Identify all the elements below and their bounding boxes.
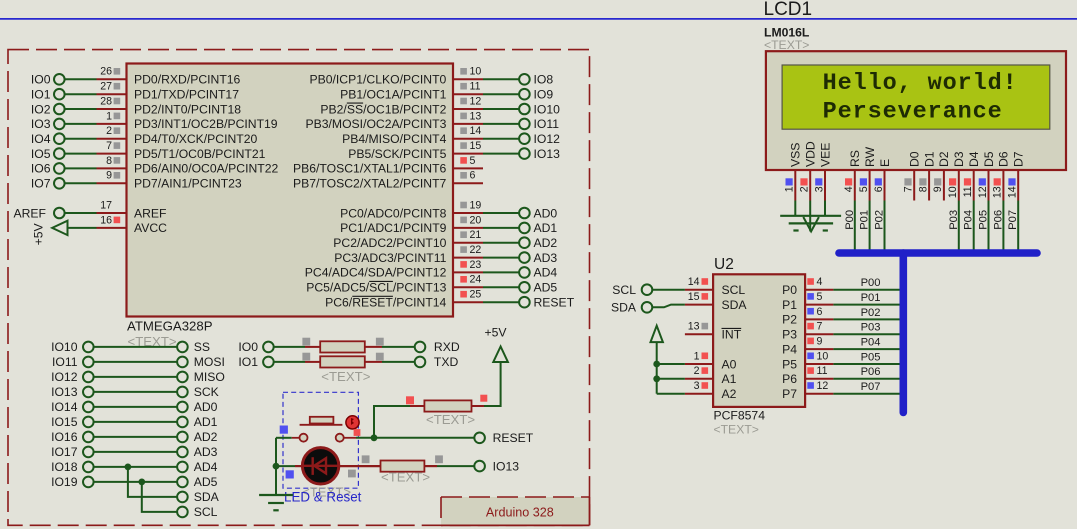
- svg-text:IO16: IO16: [51, 430, 78, 444]
- svg-text:<TEXT>: <TEXT>: [714, 423, 759, 437]
- svg-text:VSS: VSS: [789, 143, 803, 167]
- svg-text:13: 13: [470, 110, 482, 122]
- svg-text:SCL: SCL: [722, 283, 746, 297]
- svg-text:6: 6: [873, 186, 885, 192]
- svg-text:D5: D5: [982, 151, 996, 167]
- wire + terminal IO10: [483, 108, 519, 110]
- resistor series IO0-RXD: [320, 341, 365, 352]
- bus vertical: [899, 253, 907, 413]
- svg-text:VEE: VEE: [818, 143, 832, 167]
- svg-text:IO11: IO11: [534, 117, 560, 131]
- svg-text:D7: D7: [1012, 151, 1026, 167]
- wire P03 to bus: [958, 201, 960, 254]
- svg-text:7: 7: [903, 186, 915, 192]
- wire P04 to bus: [973, 201, 975, 254]
- svg-text:Arduino 328: Arduino 328: [486, 506, 554, 520]
- svg-text:PC4/ADC4/SDA/PCINT12: PC4/ADC4/SDA/PCINT12: [305, 266, 447, 280]
- svg-text:PB1/OC1A/PCINT1: PB1/OC1A/PCINT1: [340, 88, 447, 102]
- svg-text:P00: P00: [861, 277, 881, 289]
- svg-text:P01: P01: [859, 210, 871, 230]
- svg-text:IO12: IO12: [534, 132, 561, 146]
- push button (reset): [276, 437, 292, 439]
- svg-text:AD3: AD3: [194, 445, 218, 459]
- svg-text:6: 6: [470, 170, 476, 182]
- node junction at LED anode branch: [273, 463, 280, 470]
- svg-text:PD5/T1/OC0B/PCINT21: PD5/T1/OC0B/PCINT21: [134, 147, 266, 161]
- terminal SDA: [177, 492, 188, 503]
- svg-text:PC1/ADC1/PCINT9: PC1/ADC1/PCINT9: [340, 221, 447, 235]
- svg-text:7: 7: [817, 321, 823, 333]
- svg-text:14: 14: [1007, 186, 1019, 198]
- svg-text:AREF: AREF: [134, 206, 167, 220]
- svg-text:12: 12: [470, 95, 482, 107]
- svg-text:PC2/ADC2/PCINT10: PC2/ADC2/PCINT10: [333, 236, 446, 250]
- svg-text:P07: P07: [861, 381, 881, 393]
- svg-text:+5V: +5V: [485, 326, 508, 340]
- node junction A1: [653, 375, 660, 382]
- wire resistor -> reset node: [410, 405, 424, 407]
- svg-text:AD5: AD5: [194, 475, 218, 489]
- svg-text:<TEXT>: <TEXT>: [321, 369, 370, 384]
- svg-text:IO2: IO2: [31, 102, 51, 116]
- svg-text:24: 24: [470, 274, 482, 286]
- svg-text:27: 27: [100, 81, 112, 93]
- svg-text:A2: A2: [722, 387, 737, 401]
- svg-text:14: 14: [688, 276, 700, 288]
- svg-text:D2: D2: [937, 151, 951, 167]
- svg-text:P4: P4: [782, 342, 797, 356]
- svg-text:D3: D3: [952, 151, 966, 167]
- node junction on IO19 wire: [138, 479, 145, 486]
- bus horizontal: [839, 249, 1037, 257]
- svg-text:LCD1: LCD1: [764, 0, 813, 20]
- Arduino 328 title box: [441, 497, 590, 525]
- svg-text:INT: INT: [722, 328, 742, 342]
- svg-text:IO10: IO10: [534, 102, 561, 116]
- node junction on IO18 wire: [125, 464, 132, 471]
- svg-text:D4: D4: [967, 151, 981, 167]
- wire resistor -> IO13 terminal: [424, 465, 437, 467]
- node junction A0: [653, 361, 660, 368]
- wire resistor -> RXD: [382, 346, 415, 348]
- svg-text:<TEXT>: <TEXT>: [426, 412, 475, 427]
- svg-text:8: 8: [106, 155, 112, 167]
- svg-text:PC3/ADC3/PCINT11: PC3/ADC3/PCINT11: [334, 251, 446, 265]
- svg-text:SDA: SDA: [722, 298, 748, 312]
- svg-text:AD2: AD2: [534, 236, 558, 250]
- svg-text:P03: P03: [948, 210, 960, 230]
- svg-text:PC0/ADC0/PCINT8: PC0/ADC0/PCINT8: [340, 206, 447, 220]
- svg-text:5: 5: [817, 291, 823, 303]
- svg-text:IO13: IO13: [493, 459, 520, 473]
- subcircuit frame Arduino 328 (dashed): [8, 50, 590, 526]
- svg-text:PB3/MOSI/OC2A/PCINT3: PB3/MOSI/OC2A/PCINT3: [306, 117, 447, 131]
- wire IO19 -> SCL terminal: [142, 482, 177, 512]
- wire: top blue bus/divider line: [0, 18, 1077, 20]
- svg-text:8: 8: [917, 186, 929, 192]
- svg-text:TXD: TXD: [434, 355, 459, 369]
- svg-text:PD3/INT1/OC2B/PCINT19: PD3/INT1/OC2B/PCINT19: [134, 117, 278, 131]
- svg-text:P6: P6: [782, 372, 797, 386]
- svg-text:28: 28: [100, 95, 112, 107]
- svg-text:PCF8574: PCF8574: [714, 409, 766, 423]
- svg-text:LED & Reset: LED & Reset: [284, 490, 362, 505]
- svg-text:7: 7: [106, 140, 112, 152]
- LED D1: [276, 465, 295, 467]
- svg-text:10: 10: [470, 66, 482, 78]
- svg-text:IO7: IO7: [31, 177, 51, 191]
- terminal SCL: [177, 507, 188, 518]
- svg-text:1: 1: [106, 110, 112, 122]
- wire P2 -> bus, net P02: [833, 318, 903, 320]
- svg-text:PD7/AIN1/PCINT23: PD7/AIN1/PCINT23: [134, 177, 242, 191]
- svg-text:SS: SS: [194, 340, 210, 354]
- svg-text:P05: P05: [978, 210, 990, 230]
- svg-text:P3: P3: [782, 328, 797, 342]
- svg-text:19: 19: [470, 199, 482, 211]
- svg-text:SDA: SDA: [194, 490, 220, 504]
- svg-text:PB0/ICP1/CLKO/PCINT0: PB0/ICP1/CLKO/PCINT0: [310, 73, 447, 87]
- svg-text:1: 1: [784, 186, 796, 192]
- svg-text:9: 9: [817, 336, 823, 348]
- svg-text:9: 9: [932, 186, 944, 192]
- wire IO1 -> resistor: [274, 361, 305, 363]
- svg-text:AD2: AD2: [194, 430, 218, 444]
- wire + terminal IO12: [483, 138, 519, 140]
- wire + terminal IO9: [483, 93, 519, 95]
- terminal TXD: [415, 357, 426, 368]
- LCD1 LM016L body: [766, 51, 1066, 170]
- svg-text:P00: P00: [844, 210, 856, 230]
- svg-text:SCL: SCL: [612, 283, 636, 297]
- resistor reset pull-up: [424, 400, 471, 411]
- node junction reset: [371, 434, 378, 441]
- svg-text:PD4/T0/XCK/PCINT20: PD4/T0/XCK/PCINT20: [134, 132, 257, 146]
- ground (LCD supply): [780, 215, 841, 217]
- wire P7 -> bus, net P07: [833, 393, 903, 395]
- wire button -> reset node: [344, 437, 356, 439]
- wire left vertical to ground: [275, 438, 277, 495]
- LCD screen: [782, 65, 1050, 129]
- svg-text:RXD: RXD: [434, 340, 460, 354]
- svg-text:U2: U2: [714, 256, 734, 273]
- svg-text:Hello, world!: Hello, world!: [823, 70, 1018, 97]
- svg-text:13: 13: [992, 186, 1004, 198]
- svg-text:6: 6: [817, 306, 823, 318]
- svg-text:AD1: AD1: [534, 221, 558, 235]
- svg-text:P06: P06: [992, 210, 1004, 230]
- svg-text:IO1: IO1: [31, 88, 51, 102]
- svg-text:15: 15: [470, 140, 482, 152]
- svg-text:P07: P07: [1007, 210, 1019, 230]
- wire P6 -> bus, net P06: [833, 378, 903, 380]
- svg-text:VDD: VDD: [804, 141, 818, 167]
- svg-text:PD1/TXD/PCINT17: PD1/TXD/PCINT17: [134, 88, 239, 102]
- svg-text:10: 10: [947, 186, 959, 198]
- svg-text:3: 3: [813, 186, 825, 192]
- svg-text:SCL: SCL: [194, 505, 218, 519]
- svg-text:IO0: IO0: [31, 73, 51, 87]
- IC U1 ATMEGA328P body: [127, 64, 454, 317]
- svg-text:P2: P2: [782, 313, 797, 327]
- svg-text:P5: P5: [782, 357, 797, 371]
- svg-text:12: 12: [817, 380, 829, 392]
- svg-text:PB4/MISO/PCINT4: PB4/MISO/PCINT4: [342, 132, 447, 146]
- svg-text:3: 3: [694, 380, 700, 392]
- svg-text:IO19: IO19: [51, 475, 78, 489]
- wire P1 -> bus, net P01: [833, 304, 903, 306]
- svg-text:RW: RW: [863, 146, 877, 167]
- svg-text:SDA: SDA: [611, 301, 637, 315]
- svg-text:<TEXT>: <TEXT>: [381, 470, 430, 485]
- svg-text:23: 23: [470, 259, 482, 271]
- terminal SCL (U2): [642, 284, 653, 295]
- svg-text:9: 9: [106, 170, 112, 182]
- svg-text:PC5/ADC5/SCL/PCINT13: PC5/ADC5/SCL/PCINT13: [306, 281, 446, 295]
- svg-text:MISO: MISO: [194, 370, 225, 384]
- svg-text:SCK: SCK: [194, 385, 219, 399]
- svg-text:E: E: [878, 159, 892, 167]
- wire P4 -> bus, net P04: [833, 348, 903, 350]
- svg-text:AD5: AD5: [534, 281, 558, 295]
- svg-text:AD0: AD0: [534, 206, 558, 220]
- svg-text:17: 17: [100, 199, 112, 211]
- wire P06 to bus: [1002, 201, 1004, 254]
- svg-text:1: 1: [694, 350, 700, 362]
- terminal SDA (U2): [642, 302, 653, 313]
- wire P5 -> bus, net P05: [833, 363, 903, 365]
- wire to A1: [657, 378, 685, 380]
- svg-text:PD2/INT0/PCINT18: PD2/INT0/PCINT18: [134, 102, 241, 116]
- wire VDD to ground arrow: [809, 201, 811, 232]
- wire + terminal IO13: [483, 153, 519, 155]
- svg-text:11: 11: [962, 186, 974, 197]
- svg-text:P02: P02: [861, 307, 881, 319]
- terminal RESET: [474, 433, 485, 444]
- svg-text:A1: A1: [722, 372, 737, 386]
- svg-text:AD1: AD1: [194, 415, 218, 429]
- svg-text:MOSI: MOSI: [194, 355, 225, 369]
- svg-text:IO13: IO13: [534, 147, 561, 161]
- svg-text:11: 11: [817, 365, 828, 377]
- resistor series IO1-TXD: [320, 356, 365, 367]
- svg-text:P04: P04: [963, 210, 975, 230]
- resistor LED series: [381, 461, 425, 472]
- wire P07 to bus: [1017, 201, 1019, 254]
- wire + terminal IO8: [483, 78, 519, 80]
- svg-text:22: 22: [470, 244, 482, 256]
- svg-text:AD4: AD4: [194, 460, 218, 474]
- power +5V (reset pull-up): [493, 347, 508, 363]
- svg-text:P06: P06: [861, 366, 881, 378]
- svg-text:25: 25: [470, 289, 482, 301]
- svg-text:IO6: IO6: [31, 162, 51, 176]
- svg-text:IO11: IO11: [52, 355, 78, 369]
- svg-text:AD4: AD4: [534, 266, 558, 280]
- svg-text:P05: P05: [861, 351, 881, 363]
- svg-text:IO12: IO12: [51, 370, 78, 384]
- svg-text:IO10: IO10: [51, 340, 78, 354]
- terminal RXD: [415, 342, 426, 353]
- svg-text:D1: D1: [922, 151, 936, 167]
- svg-text:2: 2: [694, 365, 700, 377]
- wire +5V down to resistor: [484, 362, 501, 406]
- svg-text:D6: D6: [997, 151, 1011, 167]
- svg-text:13: 13: [688, 321, 700, 333]
- svg-text:IO8: IO8: [534, 73, 554, 87]
- wire to A2: [657, 393, 685, 395]
- wire P01 to bus: [869, 201, 871, 254]
- svg-text:+5V: +5V: [32, 223, 46, 246]
- svg-text:IO14: IO14: [51, 400, 78, 414]
- wire LED -> resistor: [339, 465, 381, 467]
- svg-text:PB2/SS/OC1B/PCINT2: PB2/SS/OC1B/PCINT2: [320, 102, 446, 116]
- svg-text:RESET: RESET: [534, 296, 575, 310]
- svg-text:21: 21: [470, 229, 482, 241]
- svg-text:P02: P02: [874, 210, 886, 230]
- svg-text:A0: A0: [722, 357, 737, 371]
- svg-text:PB7/TOSC2/XTAL2/PCINT7: PB7/TOSC2/XTAL2/PCINT7: [293, 177, 447, 191]
- wire P00 to bus: [854, 201, 856, 254]
- svg-text:PB5/SCK/PCINT5: PB5/SCK/PCINT5: [348, 147, 446, 161]
- svg-text:2: 2: [106, 125, 112, 137]
- svg-text:4: 4: [843, 186, 855, 192]
- wire reset node -> RESET terminal: [377, 437, 474, 439]
- svg-text:PC6/RESET/PCINT14: PC6/RESET/PCINT14: [325, 296, 446, 310]
- svg-text:IO3: IO3: [31, 117, 51, 131]
- svg-text:11: 11: [470, 81, 481, 93]
- wire to A0: [657, 363, 685, 365]
- power arrow (A0-A2 tie): [651, 326, 663, 342]
- wire + terminal IO11: [483, 123, 519, 125]
- svg-text:IO4: IO4: [31, 132, 51, 146]
- svg-text:AVCC: AVCC: [134, 221, 167, 235]
- svg-text:14: 14: [470, 125, 482, 137]
- svg-text:AD3: AD3: [534, 251, 558, 265]
- svg-text:RS: RS: [848, 150, 862, 167]
- svg-text:RESET: RESET: [493, 431, 534, 445]
- svg-text:IO5: IO5: [31, 147, 51, 161]
- svg-text:20: 20: [470, 214, 482, 226]
- wire P02 to bus: [884, 201, 886, 254]
- svg-text:P0: P0: [782, 283, 797, 297]
- svg-text:5: 5: [470, 155, 476, 167]
- wire P3 -> bus, net P03: [833, 333, 903, 335]
- terminal IO13: [474, 461, 485, 472]
- svg-text:IO15: IO15: [51, 415, 78, 429]
- wire VSS to ground: [794, 201, 796, 216]
- svg-text:IO0: IO0: [238, 340, 258, 354]
- svg-text:IO1: IO1: [238, 355, 258, 369]
- svg-text:ATMEGA328P: ATMEGA328P: [127, 319, 213, 334]
- svg-text:P04: P04: [861, 337, 881, 349]
- svg-text:2: 2: [799, 186, 811, 192]
- svg-text:<TEXT>: <TEXT>: [764, 38, 809, 52]
- button interactive marker: [346, 416, 359, 429]
- svg-text:16: 16: [100, 214, 112, 226]
- svg-text:D0: D0: [908, 151, 922, 167]
- svg-text:10: 10: [817, 350, 829, 362]
- svg-text:PB6/TOSC1/XTAL1/PCINT6: PB6/TOSC1/XTAL1/PCINT6: [293, 162, 447, 176]
- svg-text:15: 15: [688, 291, 700, 303]
- ground (LED cathode): [259, 494, 293, 496]
- svg-text:P1: P1: [782, 298, 797, 312]
- svg-text:5: 5: [858, 186, 870, 192]
- svg-text:P01: P01: [861, 292, 881, 304]
- svg-text:IO17: IO17: [51, 445, 78, 459]
- svg-text:IO13: IO13: [51, 385, 78, 399]
- dashed blue group box LED & Reset: [283, 392, 358, 488]
- svg-text:AREF: AREF: [13, 206, 46, 220]
- wire IO0 -> resistor: [274, 346, 305, 348]
- svg-text:P7: P7: [782, 387, 797, 401]
- wire VEE to ground: [824, 201, 826, 216]
- wire resistor -> TXD: [382, 361, 415, 363]
- wire P0 -> bus, net P00: [833, 289, 903, 291]
- svg-text:12: 12: [977, 186, 989, 198]
- svg-text:PD6/AIN0/OC0A/PCINT22: PD6/AIN0/OC0A/PCINT22: [134, 162, 278, 176]
- svg-text:AD0: AD0: [194, 400, 218, 414]
- wire IO18 -> SDA terminal: [128, 467, 177, 497]
- svg-text:PD0/RXD/PCINT16: PD0/RXD/PCINT16: [134, 73, 241, 87]
- svg-text:4: 4: [817, 276, 823, 288]
- wire P05 to bus: [988, 201, 990, 254]
- svg-text:P03: P03: [861, 322, 881, 334]
- svg-text:IO18: IO18: [51, 460, 78, 474]
- svg-text:26: 26: [100, 66, 112, 78]
- svg-text:Perseverance: Perseverance: [823, 98, 1003, 125]
- svg-text:IO9: IO9: [534, 88, 554, 102]
